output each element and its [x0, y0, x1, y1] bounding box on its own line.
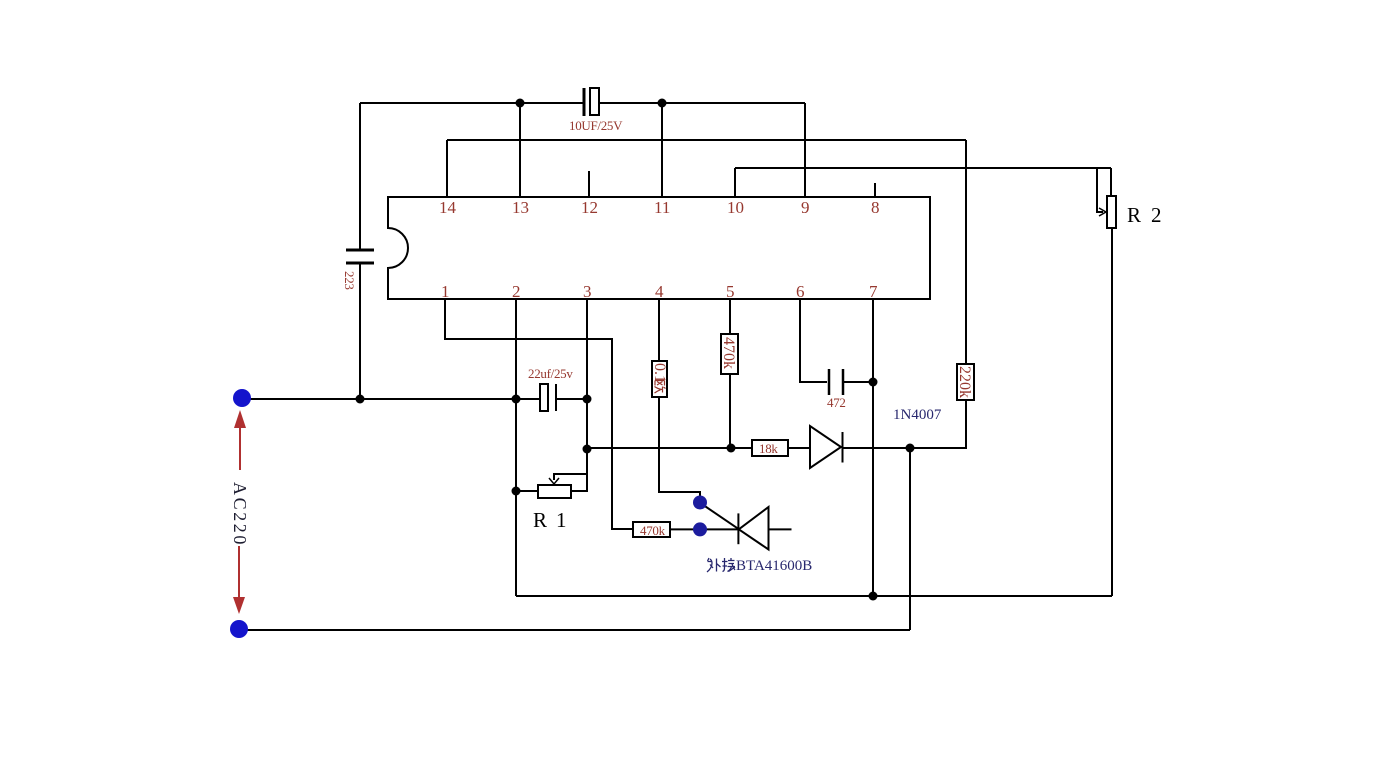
- wire R1 left lead: [516, 490, 538, 492]
- resistor 18k: [752, 440, 788, 456]
- terminal AC top: [233, 389, 251, 407]
- junction node ac-c223: [356, 395, 365, 404]
- junction node diode-out: [906, 444, 915, 453]
- gate node lower blue: [693, 522, 707, 536]
- wire pin7 column: [872, 299, 874, 596]
- svg-text:7: 7: [869, 282, 878, 301]
- wire R2 wiper branch: [1097, 168, 1103, 212]
- wire pin4 bottom to gate dot: [659, 397, 700, 498]
- wire pin1 path: [445, 299, 633, 529]
- svg-text:9: 9: [801, 198, 810, 217]
- IC U1 body: [388, 197, 930, 299]
- wire pin13 drop: [519, 103, 521, 197]
- label 0.1ohm: [651, 363, 668, 393]
- svg-text:2: 2: [1151, 203, 1162, 227]
- resistor 0.1ohm: [652, 361, 667, 397]
- svg-text:14: 14: [439, 198, 457, 217]
- svg-text:5: 5: [726, 282, 735, 301]
- svg-text:10UF/25V: 10UF/25V: [569, 118, 623, 133]
- wire R220k bottom: [910, 400, 966, 448]
- wire top rail right: [599, 102, 805, 104]
- wire rail to R220k top: [965, 140, 967, 364]
- wire C22uf right lead: [556, 398, 587, 400]
- svg-text:223: 223: [342, 271, 357, 290]
- svg-text:BTA41600B: BTA41600B: [736, 558, 812, 574]
- gate node upper blue: [693, 496, 707, 510]
- wire node3 row to 18k: [587, 447, 752, 449]
- junction node pin7-bottom: [869, 592, 878, 601]
- wire R2 top lead: [1110, 168, 1112, 196]
- diode D1 1N4007: [810, 426, 843, 468]
- svg-text:R: R: [1127, 203, 1141, 227]
- triac Q1: [738, 507, 768, 550]
- wire diode node drop: [909, 448, 911, 630]
- svg-text:472: 472: [827, 395, 846, 410]
- wire pin11 drop: [661, 103, 663, 197]
- wire pin14 rail: [447, 139, 966, 141]
- svg-text:8: 8: [871, 198, 880, 217]
- wire pin5 bottom lead: [729, 374, 731, 448]
- wire diode out: [843, 447, 966, 449]
- svg-text:12: 12: [581, 198, 598, 217]
- wire pin4 top lead: [658, 299, 660, 361]
- junction node pin7-472: [869, 378, 878, 387]
- svg-text:1: 1: [556, 508, 567, 532]
- potentiometer R2 body: [1107, 196, 1116, 228]
- svg-text:2: 2: [512, 282, 521, 301]
- svg-text:470k: 470k: [640, 523, 666, 538]
- arrow AC down: [233, 546, 245, 614]
- wire pin14 riser: [446, 140, 448, 197]
- wire pin8 stub: [874, 183, 876, 197]
- svg-text:3: 3: [583, 282, 592, 301]
- wire C223 to AC line: [359, 263, 361, 399]
- wire pin12 stub: [588, 171, 590, 197]
- wire left rail to C223: [359, 103, 361, 250]
- wire pin5 top lead: [729, 299, 731, 334]
- svg-text:220k: 220k: [956, 366, 973, 398]
- resistor 470k upper: [721, 334, 738, 374]
- potentiometer R1 body: [538, 485, 571, 498]
- label BTA41600B: [707, 558, 735, 572]
- capacitor C4 472: [829, 369, 843, 395]
- wire R1 wiper: [554, 474, 587, 480]
- svg-text:AC220: AC220: [230, 482, 250, 547]
- wire pin10 riser: [734, 168, 736, 197]
- svg-text:1: 1: [441, 282, 450, 301]
- wire gate row: [670, 528, 792, 530]
- resistor 220k: [957, 364, 974, 400]
- junction node pin3-row: [583, 445, 592, 454]
- svg-text:18k: 18k: [759, 441, 778, 456]
- wire R1 right riser: [571, 449, 587, 491]
- capacitor C3 22uf/25v: [540, 384, 556, 411]
- resistor 470k lower: [633, 522, 670, 537]
- svg-text:6: 6: [796, 282, 805, 301]
- potentiometer R2 wiper arrow: [1099, 208, 1106, 216]
- wire pin10 rail to R2: [735, 167, 1111, 169]
- svg-text:4: 4: [655, 282, 664, 301]
- wire top rail left: [360, 102, 583, 104]
- svg-text:R: R: [533, 508, 547, 532]
- wire triac gate diagonal: [704, 506, 739, 530]
- svg-text:10: 10: [727, 198, 744, 217]
- capacitor C1 10UF/25V: [584, 88, 599, 116]
- svg-text:1N4007: 1N4007: [893, 407, 942, 423]
- svg-text:11: 11: [654, 198, 670, 217]
- wire pin9 drop: [804, 103, 806, 197]
- capacitor C2 223: [346, 250, 374, 263]
- junction node r1-left: [512, 487, 521, 496]
- wire pin2 column: [515, 299, 517, 596]
- terminal AC bottom: [230, 620, 248, 638]
- wire AC line: [242, 398, 540, 400]
- wire bottom rail lower: [239, 629, 910, 631]
- junction node top11: [658, 99, 667, 108]
- junction node ac-pin2: [512, 395, 521, 404]
- wire bottom rail upper: [516, 595, 1112, 597]
- junction node top13: [516, 99, 525, 108]
- wire 18k to diode: [788, 447, 810, 449]
- junction node r470k-18k: [727, 444, 736, 453]
- wire R2 bottom lead: [1111, 228, 1113, 596]
- svg-text:470k: 470k: [720, 337, 737, 369]
- wire C472 right lead: [843, 381, 873, 383]
- wire pin6 lead: [800, 299, 827, 382]
- svg-text:22uf/25v: 22uf/25v: [528, 366, 573, 381]
- potentiometer R1 wiper arrow: [549, 478, 559, 484]
- wire pin3 column: [586, 299, 588, 449]
- junction node cap-pin3: [583, 395, 592, 404]
- svg-text:13: 13: [512, 198, 529, 217]
- arrow AC up: [234, 410, 246, 470]
